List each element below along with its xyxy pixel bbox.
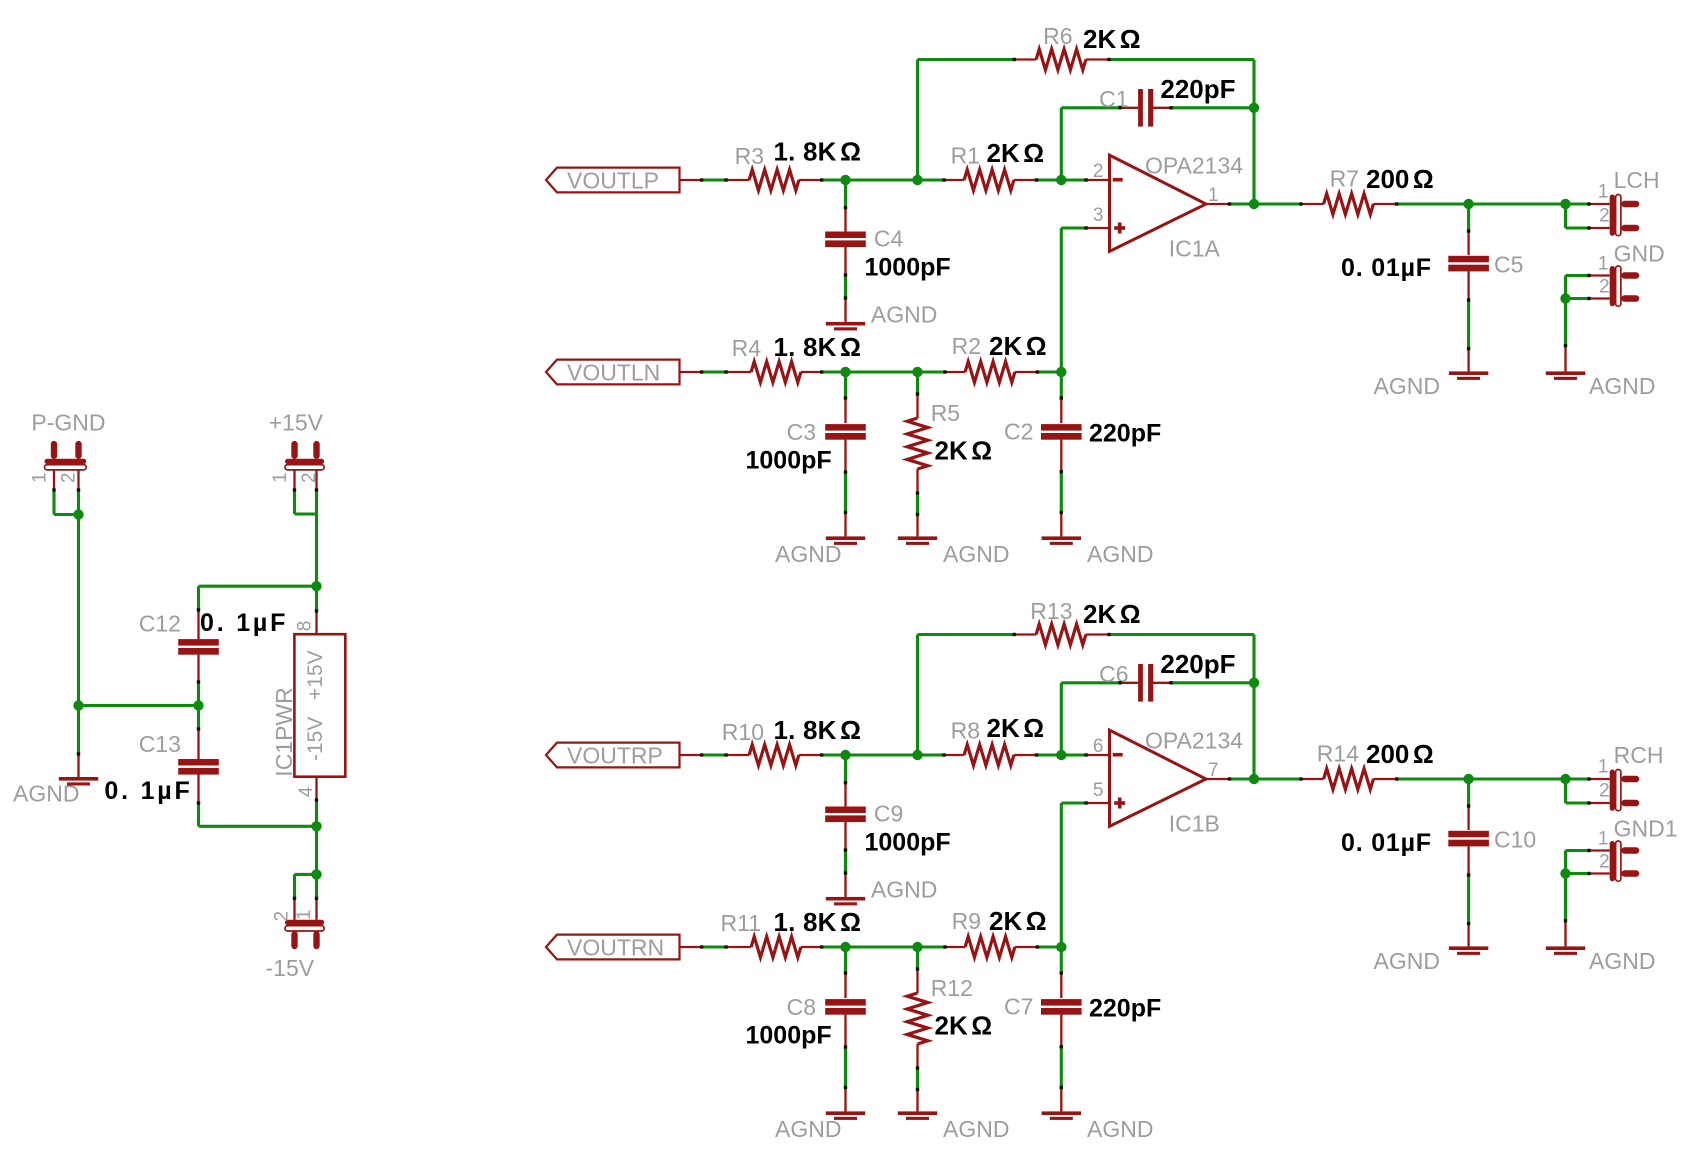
power wire-pin connection dots — [52, 488, 318, 900]
capacitor C12 — [139, 586, 288, 705]
svg-text:R10: R10 — [722, 719, 764, 745]
junction — [912, 367, 922, 377]
svg-text:220pF: 220pF — [1160, 649, 1235, 679]
capacitor C13 — [104, 706, 316, 827]
svg-text:C9: C9 — [874, 800, 903, 826]
svg-text:R2: R2 — [952, 333, 981, 359]
ground — [826, 513, 865, 545]
wire — [702, 178, 726, 181]
svg-text:P-GND: P-GND — [31, 410, 105, 436]
svg-text:R12: R12 — [931, 975, 973, 1001]
svg-text:VOUTRN: VOUTRN — [567, 934, 664, 960]
wire — [1060, 108, 1063, 180]
wire — [822, 753, 944, 756]
op-amp pin number 5 — [1093, 780, 1104, 801]
svg-text:2KΩ: 2KΩ — [1083, 24, 1141, 54]
wire — [315, 586, 318, 611]
svg-text:1: 1 — [294, 909, 315, 920]
junction — [311, 869, 321, 879]
capacitor C5 — [1341, 204, 1523, 349]
svg-text:AGND: AGND — [775, 541, 841, 567]
wire — [1230, 777, 1302, 780]
resistor R4 — [726, 332, 861, 382]
resistor R8 — [944, 713, 1044, 765]
junction — [1463, 199, 1473, 209]
svg-text:AGND: AGND — [943, 541, 1009, 567]
svg-text:2: 2 — [1599, 852, 1610, 873]
svg-text:6: 6 — [1093, 736, 1104, 757]
svg-text:2: 2 — [1599, 277, 1610, 298]
wire VOUTLN pin — [680, 371, 702, 373]
node A junction — [840, 750, 850, 760]
ground — [826, 298, 865, 330]
wire -15V pin 1 — [315, 874, 318, 919]
svg-text:R13: R13 — [1030, 598, 1072, 624]
svg-text:C12: C12 — [139, 610, 181, 636]
wire — [702, 370, 726, 373]
wire — [77, 706, 80, 755]
resistor R7 — [1301, 164, 1434, 214]
IC IC1PWR power block — [271, 611, 345, 800]
capacitor C1 — [1061, 74, 1254, 127]
wire — [1061, 226, 1109, 229]
wire +15V pin 2 — [315, 470, 317, 586]
ground — [1042, 1088, 1081, 1120]
node B junction — [912, 175, 922, 185]
svg-text:C7: C7 — [1004, 994, 1033, 1020]
svg-text:AGND: AGND — [1087, 1116, 1153, 1142]
svg-text:AGND: AGND — [1374, 373, 1440, 399]
svg-text:+15V: +15V — [269, 410, 324, 436]
wire — [1566, 779, 1610, 803]
svg-text:C8: C8 — [787, 994, 816, 1020]
svg-text:VOUTLP: VOUTLP — [567, 167, 659, 193]
wire — [1566, 297, 1610, 300]
svg-text:1: 1 — [1598, 254, 1609, 275]
svg-text:R11: R11 — [721, 910, 762, 936]
wire — [1566, 204, 1610, 228]
capacitor C6 — [1061, 649, 1254, 702]
ground label AGND — [13, 781, 79, 807]
junction — [1056, 942, 1066, 952]
svg-text:C4: C4 — [874, 225, 904, 251]
connector +15V — [269, 410, 325, 484]
junction — [1056, 367, 1066, 377]
svg-text:AGND: AGND — [13, 781, 79, 807]
ground label AGND — [1087, 541, 1153, 567]
resistor R12 — [907, 947, 992, 1090]
junction — [1560, 293, 1570, 303]
svg-text:+15V: +15V — [304, 650, 327, 700]
resistor R2 — [945, 331, 1047, 382]
wire — [1037, 945, 1061, 948]
junction — [1249, 103, 1259, 113]
ground label AGND — [775, 1116, 841, 1142]
svg-text:R14: R14 — [1317, 741, 1359, 767]
connector LCH — [1589, 167, 1660, 236]
wire — [1060, 803, 1063, 947]
svg-text:IC1B: IC1B — [1169, 811, 1220, 837]
ground — [1449, 349, 1488, 380]
junction — [1463, 774, 1473, 784]
svg-text:5: 5 — [1093, 780, 1104, 801]
svg-text:AGND: AGND — [775, 1116, 841, 1142]
wire-pin connection dots — [700, 58, 1591, 516]
op-amp output pin — [1206, 203, 1230, 205]
svg-text:220pF: 220pF — [1160, 74, 1235, 104]
resistor R10 — [722, 715, 861, 765]
svg-text:VOUTLN: VOUTLN — [567, 359, 660, 385]
resistor R1 — [944, 138, 1044, 190]
svg-text:OPA2134: OPA2134 — [1145, 153, 1243, 179]
ground — [898, 515, 937, 545]
ground — [1546, 346, 1585, 380]
svg-text:1. 8KΩ: 1. 8KΩ — [774, 907, 862, 937]
svg-text:RCH: RCH — [1614, 742, 1664, 768]
svg-text:3: 3 — [1093, 205, 1104, 226]
capacitor C8 — [746, 947, 866, 1088]
wire — [1566, 849, 1610, 852]
svg-text:C1: C1 — [1099, 86, 1128, 112]
connector RCH — [1589, 742, 1663, 811]
wire +15V pin 1 — [295, 470, 317, 514]
wire P-GND pin 2 — [77, 470, 79, 515]
wire — [1252, 635, 1255, 780]
ground label AGND — [943, 541, 1009, 567]
op-amp pin 2 wire — [1086, 179, 1110, 181]
svg-text:R8: R8 — [951, 718, 980, 744]
svg-text:AGND: AGND — [1589, 373, 1655, 399]
wire — [1061, 801, 1109, 804]
wire — [702, 945, 726, 948]
capacitor C3 — [746, 372, 866, 513]
wire VOUTRP pin — [680, 754, 702, 756]
svg-text:AGND: AGND — [943, 1116, 1009, 1142]
svg-text:1: 1 — [270, 472, 291, 483]
svg-text:C3: C3 — [787, 419, 816, 445]
wire — [1252, 60, 1255, 205]
wire — [315, 826, 318, 874]
svg-text:AGND: AGND — [1589, 948, 1655, 974]
node C junction — [1056, 175, 1066, 185]
svg-text:1000pF: 1000pF — [746, 1021, 832, 1049]
ground label AGND — [1374, 373, 1440, 399]
junction — [73, 700, 83, 710]
svg-text:2KΩ: 2KΩ — [989, 906, 1047, 936]
svg-text:8: 8 — [294, 621, 315, 632]
net label VOUTLN — [546, 359, 680, 385]
wire VOUTRN pin — [680, 946, 702, 948]
svg-text:2KΩ: 2KΩ — [935, 436, 993, 466]
wire — [1564, 874, 1567, 921]
ground — [1449, 924, 1488, 955]
ground label AGND — [943, 1116, 1009, 1142]
net label VOUTLP — [546, 167, 680, 193]
op-amp pin number 1 — [1208, 185, 1219, 206]
wire — [1037, 370, 1061, 373]
junction — [840, 367, 850, 377]
svg-text:AGND: AGND — [871, 301, 937, 327]
wire — [1564, 851, 1567, 874]
capacitor C7 — [1004, 947, 1161, 1088]
connector -15V — [266, 909, 325, 981]
ground label AGND — [871, 876, 937, 902]
wire — [916, 635, 919, 756]
svg-text:1. 8KΩ: 1. 8KΩ — [774, 715, 862, 745]
svg-text:-15V: -15V — [266, 955, 315, 981]
svg-text:2: 2 — [1093, 161, 1104, 182]
svg-text:GND1: GND1 — [1614, 816, 1678, 842]
wire -15V pin 2 jog — [295, 874, 317, 919]
svg-text:C6: C6 — [1099, 661, 1128, 687]
ground label AGND — [1087, 1116, 1153, 1142]
junction — [1560, 774, 1570, 784]
junction — [1249, 678, 1259, 688]
svg-text:1: 1 — [1598, 757, 1609, 778]
capacitor C10 — [1341, 779, 1536, 924]
svg-text:1: 1 — [1598, 182, 1609, 203]
wire — [702, 753, 726, 756]
svg-text:-15V: -15V — [304, 717, 327, 761]
resistor R14 — [1301, 739, 1434, 789]
ground — [59, 754, 98, 786]
net label VOUTRN — [546, 934, 680, 960]
svg-text:4: 4 — [296, 786, 317, 797]
junction — [73, 509, 83, 519]
pin number 4 — [296, 786, 317, 797]
svg-text:2KΩ: 2KΩ — [1083, 599, 1141, 629]
wire — [822, 370, 945, 373]
svg-text:0. 1µF: 0. 1µF — [200, 609, 288, 637]
wire — [1564, 276, 1567, 299]
svg-text:OPA2134: OPA2134 — [1145, 728, 1243, 754]
ground — [1546, 921, 1585, 955]
op-amp pin number 6 — [1093, 736, 1104, 757]
wire — [79, 704, 199, 707]
svg-text:GND: GND — [1614, 241, 1665, 267]
svg-text:2: 2 — [272, 911, 293, 922]
capacitor C9 — [825, 755, 950, 873]
ground label AGND — [775, 541, 841, 567]
svg-text:2KΩ: 2KΩ — [987, 713, 1045, 743]
wire — [1566, 274, 1610, 277]
svg-text:R6: R6 — [1043, 23, 1072, 49]
pin number 8 — [294, 621, 315, 632]
svg-text:IC1PWR: IC1PWR — [271, 687, 297, 776]
resistor R9 — [945, 906, 1047, 957]
svg-text:VOUTRP: VOUTRP — [567, 742, 663, 768]
svg-text:2: 2 — [1599, 206, 1610, 227]
junction — [1249, 199, 1259, 209]
junction — [1560, 868, 1570, 878]
svg-text:IC1A: IC1A — [1169, 236, 1221, 262]
op-amp output pin — [1206, 778, 1230, 780]
svg-text:1000pF: 1000pF — [865, 254, 951, 282]
net label VOUTRP — [546, 742, 680, 768]
wire — [315, 800, 318, 826]
svg-text:AGND: AGND — [1087, 541, 1153, 567]
junction — [840, 942, 850, 952]
wire — [1060, 228, 1063, 372]
wire VOUTLP pin — [680, 179, 702, 181]
wire — [1566, 872, 1610, 875]
svg-text:C5: C5 — [1494, 252, 1523, 278]
svg-text:200Ω: 200Ω — [1366, 164, 1434, 194]
svg-text:1000pF: 1000pF — [865, 829, 951, 857]
svg-text:R1: R1 — [951, 143, 980, 169]
node A junction — [840, 175, 850, 185]
node +15V junction — [311, 581, 321, 591]
svg-text:R3: R3 — [735, 143, 764, 169]
op-amp pin 2 wire — [1086, 754, 1110, 756]
svg-text:0. 1µF: 0. 1µF — [104, 777, 192, 805]
resistor R13 — [918, 598, 1255, 645]
ground label AGND — [1589, 373, 1655, 399]
svg-text:2KΩ: 2KΩ — [989, 331, 1047, 361]
ground label AGND — [1374, 948, 1440, 974]
resistor R11 — [721, 907, 862, 957]
wire — [1397, 777, 1589, 780]
ground label AGND — [1589, 948, 1655, 974]
node B junction — [912, 750, 922, 760]
wire — [822, 945, 945, 948]
svg-text:R9: R9 — [952, 908, 981, 934]
op-amp pin number 3 — [1093, 205, 1104, 226]
svg-text:R7: R7 — [1330, 166, 1359, 192]
svg-text:2KΩ: 2KΩ — [987, 138, 1045, 168]
ground label AGND — [871, 301, 937, 327]
svg-text:220pF: 220pF — [1089, 995, 1161, 1023]
wire — [1564, 299, 1567, 346]
junction — [1249, 774, 1259, 784]
resistor R6 — [918, 23, 1255, 70]
wire — [1037, 753, 1086, 756]
junction — [1560, 199, 1570, 209]
svg-text:0. 01µF: 0. 01µF — [1341, 829, 1432, 857]
connector P-GND — [30, 410, 106, 484]
capacitor C2 — [1004, 372, 1161, 513]
wire P-GND pin 1 — [54, 470, 79, 515]
svg-text:200Ω: 200Ω — [1366, 739, 1434, 769]
resistor R3 — [726, 137, 861, 191]
svg-text:2KΩ: 2KΩ — [935, 1011, 993, 1041]
svg-text:1: 1 — [1598, 829, 1609, 850]
junction — [193, 700, 203, 710]
node C junction — [1056, 750, 1066, 760]
svg-text:1. 8KΩ: 1. 8KΩ — [774, 332, 862, 362]
wire — [1037, 178, 1086, 181]
svg-text:AGND: AGND — [871, 876, 937, 902]
svg-text:0. 01µF: 0. 01µF — [1341, 254, 1432, 282]
svg-text:C10: C10 — [1494, 827, 1536, 853]
wire — [77, 515, 80, 706]
svg-text:1000pF: 1000pF — [746, 446, 832, 474]
junction — [912, 942, 922, 952]
resistor R5 — [907, 372, 992, 515]
ground — [1042, 513, 1081, 545]
wire — [1230, 202, 1302, 205]
svg-text:C2: C2 — [1004, 419, 1033, 445]
svg-text:AGND: AGND — [1374, 948, 1440, 974]
wire — [199, 585, 317, 588]
wire — [1397, 202, 1589, 205]
op-amp pin number 2 — [1093, 161, 1104, 182]
wire-pin connection dots — [700, 633, 1591, 1091]
svg-text:2: 2 — [1599, 781, 1610, 802]
ground — [826, 1088, 865, 1120]
svg-text:2: 2 — [59, 472, 80, 483]
capacitor C4 — [825, 180, 950, 298]
ground — [898, 1090, 937, 1120]
connector GND — [1598, 241, 1665, 307]
svg-text:LCH: LCH — [1614, 167, 1660, 193]
svg-text:R4: R4 — [732, 335, 762, 361]
svg-text:1: 1 — [30, 472, 51, 483]
svg-text:C13: C13 — [139, 731, 181, 757]
ground — [826, 873, 865, 905]
svg-text:R5: R5 — [931, 400, 960, 426]
svg-text:220pF: 220pF — [1089, 420, 1161, 448]
wire — [916, 60, 919, 181]
wire — [822, 178, 944, 181]
op-amp pin number 7 — [1208, 760, 1219, 781]
junction — [311, 821, 321, 831]
wire — [1060, 683, 1063, 755]
op-amp IC1A (OPA2134) — [1110, 153, 1244, 262]
connector GND1 — [1598, 816, 1678, 882]
svg-text:1. 8KΩ: 1. 8KΩ — [774, 137, 862, 167]
op-amp IC1B (OPA2134) — [1110, 728, 1244, 837]
